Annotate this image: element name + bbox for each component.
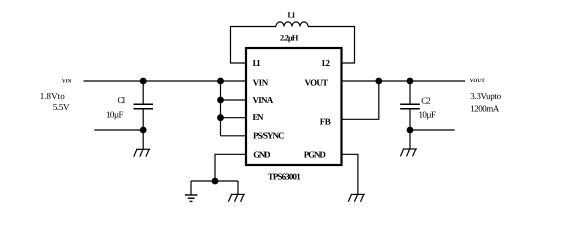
svg-text:1.8Vto: 1.8Vto — [40, 91, 65, 101]
svg-text:2.2µH: 2.2µH — [280, 34, 299, 43]
svg-text:VOUT: VOUT — [305, 78, 329, 88]
svg-text:3.3Vupto: 3.3Vupto — [470, 91, 501, 101]
svg-text:VOUT: VOUT — [470, 78, 486, 84]
svg-text:L1: L1 — [253, 58, 262, 68]
svg-text:10µF: 10µF — [419, 110, 437, 120]
svg-text:C1: C1 — [118, 95, 127, 105]
svg-text:L1: L1 — [288, 10, 296, 19]
svg-text:10µF: 10µF — [106, 109, 124, 119]
svg-text:VINA: VINA — [253, 95, 274, 105]
svg-text:PGND: PGND — [304, 149, 327, 159]
svg-text:EN: EN — [253, 112, 265, 122]
svg-text:L2: L2 — [322, 58, 331, 68]
svg-text:PS/SYNC: PS/SYNC — [253, 131, 285, 141]
svg-text:VIN: VIN — [62, 79, 72, 85]
svg-text:TPS63001: TPS63001 — [268, 171, 302, 181]
svg-text:VIN: VIN — [253, 77, 269, 87]
svg-text:FB: FB — [320, 117, 331, 127]
svg-text:1200mA: 1200mA — [470, 103, 499, 113]
svg-text:GND: GND — [253, 150, 271, 160]
svg-text:C2: C2 — [421, 96, 431, 106]
svg-text:5.5V: 5.5V — [53, 102, 70, 112]
